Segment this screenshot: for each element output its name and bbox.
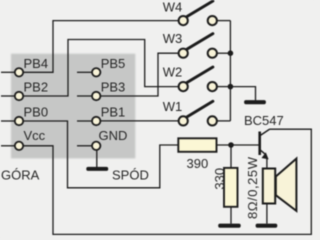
svg-text:PB0: PB0	[24, 105, 49, 120]
switch W2	[179, 67, 217, 91]
wire speaker to ground	[266, 204, 268, 224]
svg-text:PB5: PB5	[101, 56, 126, 71]
pin PB3	[92, 92, 100, 100]
svg-text:Vcc: Vcc	[24, 128, 46, 143]
wire PB4 to W4	[24, 21, 179, 73]
pin GND	[92, 142, 100, 150]
wire W1 right to bus	[217, 120, 231, 122]
svg-text:SPÓD: SPÓD	[112, 167, 149, 182]
wire PB4 lead	[1, 71, 14, 73]
wire Vcc lead	[1, 145, 14, 147]
ground symbol SPOD	[86, 167, 108, 171]
wire W3 right to bus	[217, 52, 231, 54]
wire GND lead	[77, 145, 92, 147]
wire GND to SPOD ground	[96, 151, 98, 168]
junction dot bus-W3	[228, 50, 234, 56]
wire R1 to base junction to Q1 base	[217, 144, 259, 146]
svg-text:GND: GND	[99, 128, 128, 143]
wire PB5 lead	[77, 71, 92, 73]
pin Vcc	[15, 142, 23, 150]
ground symbol under speaker	[256, 224, 278, 228]
speaker LS1	[263, 159, 297, 211]
svg-text:W1: W1	[163, 99, 183, 114]
svg-text:PB2: PB2	[24, 80, 49, 95]
svg-text:BC547: BC547	[244, 113, 284, 128]
svg-text:PB1: PB1	[101, 105, 126, 120]
wire junction to R2 330	[230, 145, 232, 168]
resistor R2 330	[224, 168, 238, 207]
svg-text:PB3: PB3	[101, 80, 126, 95]
wire PB1 to W1	[101, 120, 179, 122]
switch W3	[179, 34, 217, 58]
wire emitter to speaker	[266, 158, 268, 169]
wire bus to ground bar	[230, 87, 255, 101]
connector body (gray board outline)	[11, 54, 135, 159]
pin PB2	[15, 92, 23, 100]
svg-text:PB4: PB4	[24, 56, 49, 71]
wire PB2 lead	[1, 95, 14, 97]
ground symbol under R2 330	[218, 224, 241, 228]
wire R2 330 to ground	[230, 207, 232, 224]
svg-text:390: 390	[187, 156, 209, 171]
wire switch bus	[229, 21, 231, 121]
wire PB3 lead	[77, 95, 92, 97]
junction dot base node	[228, 142, 234, 148]
svg-text:330: 330	[212, 168, 227, 190]
wire W2 right to bus	[217, 86, 231, 88]
svg-text:W4: W4	[163, 0, 183, 15]
pin PB0	[15, 117, 23, 125]
switch W1	[179, 101, 217, 125]
ground symbol at switch bus	[244, 100, 266, 104]
svg-text:8Ω/0,25W: 8Ω/0,25W	[245, 156, 260, 219]
transistor Q1 BC547	[260, 129, 270, 159]
junction dot bus-W2	[228, 84, 234, 90]
wire PB2 to W2	[24, 40, 179, 97]
wire W4 right to bus	[217, 20, 231, 22]
wire PB0 to R1 390	[24, 121, 179, 188]
svg-text:W3: W3	[163, 31, 183, 46]
pin PB4	[15, 68, 23, 76]
wire PB0 lead	[1, 120, 14, 122]
wire Vcc to collector loop	[24, 129, 312, 234]
pin PB1	[92, 117, 100, 125]
svg-text:GÓRA: GÓRA	[1, 168, 40, 183]
resistor R1 390	[178, 138, 216, 152]
switch W4	[179, 1, 217, 25]
svg-text:W2: W2	[163, 64, 183, 79]
wire PB1 lead	[77, 120, 92, 122]
wire PB3 to W3	[101, 53, 179, 96]
pin PB5	[92, 68, 100, 76]
